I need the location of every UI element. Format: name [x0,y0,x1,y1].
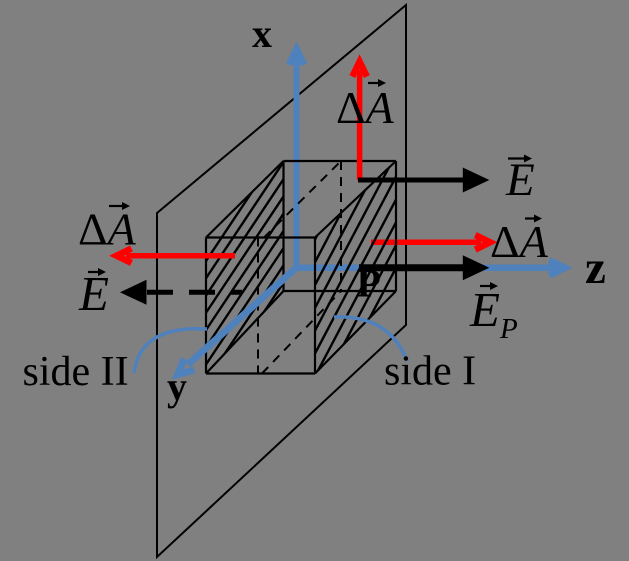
left-front vertical edge [205,238,207,374]
y axis (over hatch) [172,268,297,380]
x axis shaft [294,50,300,268]
svg-text:ΔA: ΔA [490,216,549,267]
charged sheet (large plane) [157,5,406,557]
right-back vertical edge [395,161,397,291]
label ΔA right [490,215,549,268]
svg-text:P: P [357,261,381,306]
label ΔA left [78,202,137,255]
z axis shaft (under box) [297,264,562,271]
bottom face trace [262,291,341,374]
box solid edges [206,161,396,374]
side II leader curve [134,329,207,373]
top-left depth edge [206,161,284,238]
E arrow right (top) [358,168,489,193]
front-top edge [206,236,315,238]
front face trace [257,238,259,374]
top face trace [264,161,341,238]
svg-text:z: z [585,242,606,294]
back-top edge [284,160,397,162]
svg-text:E: E [78,266,109,321]
svg-text:side I: side I [384,349,476,395]
ΔA arrow left [109,246,235,266]
svg-text:y: y [167,364,187,409]
label E right [505,154,535,206]
right-front vertical edge [314,238,316,374]
top-right depth edge [315,161,396,238]
side I leader curve [334,317,407,361]
left-back vertical edge [282,161,284,291]
svg-text:x: x [252,11,272,56]
hidden sheet-box intersection (dashed) [258,161,341,374]
bottom-left depth edge [206,291,284,374]
svg-text:ΔA: ΔA [336,82,395,133]
z axis arrowhead [548,257,573,278]
back-bottom edge [284,290,397,292]
bottom-right depth edge [315,291,396,374]
ΔA arrow up [349,54,369,180]
front-bottom edge [206,372,315,374]
svg-text:E: E [505,154,535,206]
svg-text:ΔA: ΔA [78,204,137,255]
E_P arrow right [359,255,489,280]
label ΔA top [336,79,395,133]
back face trace [340,161,342,291]
x axis arrowhead [286,42,307,67]
label E left [78,266,109,321]
label E_P [469,282,518,345]
E arrow left (dashed) [120,280,242,305]
ΔA arrow right (under hatch) [371,232,498,252]
svg-text:side II: side II [23,349,129,395]
